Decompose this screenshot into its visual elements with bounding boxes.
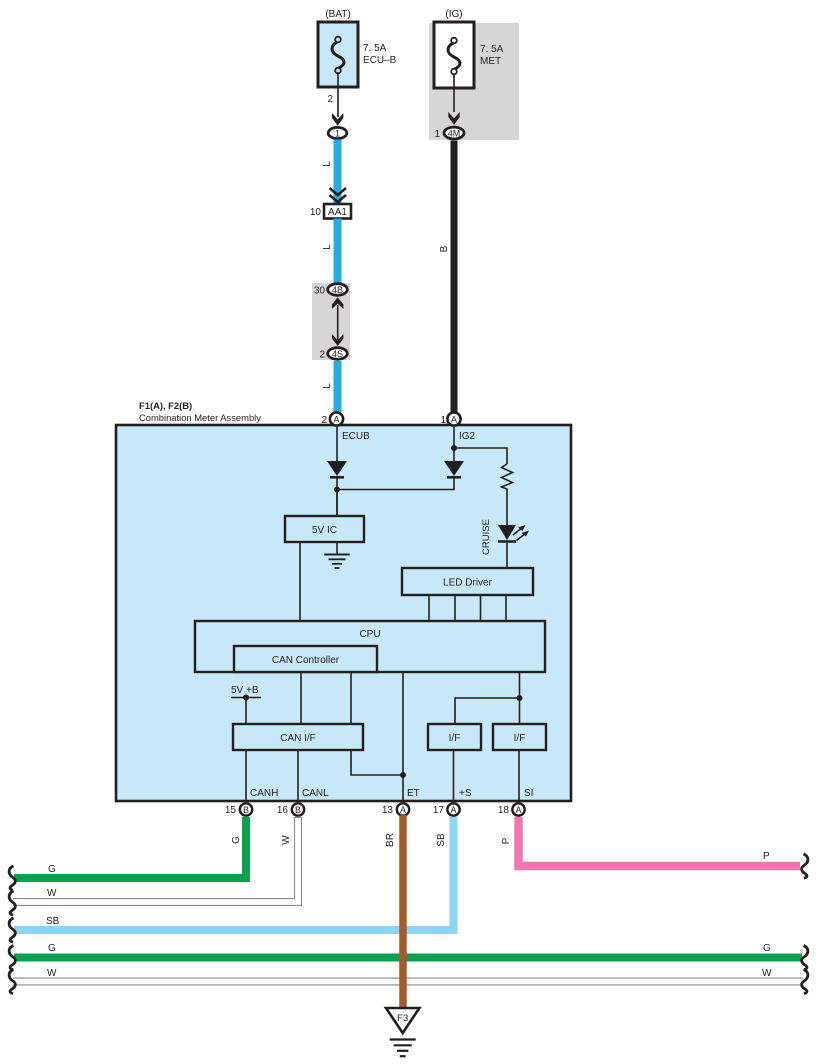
gray background IG circuit [429, 23, 519, 140]
svg-text:AA1: AA1 [328, 207, 347, 218]
wire B black [439, 141, 454, 413]
svg-text:W: W [47, 968, 57, 979]
CAN Controller box [234, 646, 377, 672]
pin 17 connector A [433, 803, 460, 816]
resistor R1 [502, 464, 513, 525]
svg-text:B: B [295, 805, 301, 815]
node 5V +B [231, 685, 261, 724]
svg-text:(BAT): (BAT) [325, 9, 350, 20]
break symbol left G1 [9, 866, 15, 890]
LED Driver box [402, 568, 533, 595]
break symbol right W2 [802, 970, 808, 994]
pin 15 connector B [225, 803, 252, 816]
svg-text:L: L [322, 383, 333, 389]
pin 1 connector A of meter [440, 412, 460, 426]
wire CPU to I/F boxes [455, 672, 523, 724]
wire G horizontal full [14, 943, 802, 958]
break symbol right P [802, 854, 808, 878]
junction wire with arrows [332, 297, 343, 346]
svg-text:CPU: CPU [359, 629, 380, 640]
wires CAN controller to CAN I/F [301, 672, 351, 724]
svg-text:5V IC: 5V IC [312, 525, 337, 536]
svg-text:P: P [501, 837, 512, 844]
svg-text:G: G [231, 836, 242, 844]
svg-text:18: 18 [498, 805, 510, 816]
svg-text:A: A [400, 805, 406, 815]
pin 2 connector A of meter [321, 412, 343, 426]
svg-text:I/F: I/F [514, 733, 526, 744]
node IG2 [451, 427, 507, 464]
break symbol left W1 [9, 891, 15, 915]
svg-text:30: 30 [314, 286, 326, 297]
svg-text:A: A [333, 414, 339, 424]
svg-text:1: 1 [434, 129, 440, 140]
svg-text:2: 2 [327, 94, 333, 105]
CAN I/F box [233, 724, 363, 750]
wire L blue segment 3 [322, 361, 338, 412]
wire G from pin 15 [14, 817, 246, 878]
svg-text:7. 5A: 7. 5A [480, 44, 504, 55]
wire ET from CPU [351, 672, 406, 802]
break symbol left W2 [9, 970, 15, 994]
svg-text:G: G [48, 864, 56, 875]
svg-text:F3: F3 [397, 1013, 408, 1024]
CPU box [195, 621, 545, 672]
svg-text:15: 15 [225, 805, 237, 816]
svg-text:Combination Meter Assembly: Combination Meter Assembly [139, 412, 261, 423]
svg-text:13: 13 [382, 805, 394, 816]
pin 2 of fuse, wire to connector 1 [327, 74, 343, 126]
svg-text:SB: SB [46, 916, 60, 927]
break symbol left SB [9, 918, 15, 942]
svg-text:B: B [243, 805, 249, 815]
I/F box 2 [493, 724, 546, 750]
svg-text:F1(A), F2(B): F1(A), F2(B) [139, 400, 192, 411]
svg-text:I/F: I/F [449, 733, 461, 744]
connector oval 1 [328, 127, 347, 138]
svg-text:5V +B: 5V +B [231, 685, 259, 696]
svg-text:CAN I/F: CAN I/F [280, 733, 316, 744]
fuse MET (IG) [434, 9, 504, 88]
svg-text:W: W [762, 968, 772, 979]
svg-text:17: 17 [433, 805, 445, 816]
svg-text:2: 2 [319, 350, 325, 361]
connector 4M pin 1 [434, 127, 464, 140]
svg-text:A: A [451, 414, 457, 424]
svg-text:LED Driver: LED Driver [443, 578, 493, 589]
diode D1 ECUB [327, 461, 347, 516]
wire L blue segment 2 [322, 219, 338, 285]
output wires to pins [246, 750, 533, 802]
wire L blue segment 1 [322, 140, 338, 204]
node ECUB [337, 427, 370, 461]
svg-text:1: 1 [440, 415, 446, 426]
svg-text:(IG): (IG) [445, 9, 462, 20]
svg-text:A: A [450, 805, 456, 815]
connector 4S pin 2 [319, 348, 347, 361]
svg-text:P: P [763, 851, 770, 862]
svg-text:BR: BR [385, 833, 396, 847]
wire 5V IC to CPU [299, 542, 301, 621]
svg-text:CANH: CANH [250, 788, 278, 799]
wire W horizontal full [13, 968, 803, 982]
svg-text:G: G [48, 943, 56, 954]
break symbol left G2 [9, 946, 15, 970]
svg-text:CANL: CANL [302, 788, 329, 799]
pin 16 connector B [277, 803, 304, 816]
wire SB from pin 17 [14, 817, 454, 930]
wire from fuse MET to connector 4M [448, 75, 459, 125]
gray background 4B-4S junction [312, 283, 350, 360]
svg-text:L: L [322, 244, 333, 250]
svg-text:10: 10 [310, 207, 322, 218]
svg-text:SI: SI [524, 788, 533, 799]
svg-text:ECU–B: ECU–B [363, 55, 397, 66]
connector AA1 pin 10 [310, 204, 351, 219]
svg-text:SB: SB [436, 833, 447, 847]
pin 18 connector A [498, 803, 525, 816]
svg-text:16: 16 [277, 805, 289, 816]
svg-text:1: 1 [335, 129, 340, 139]
fuse ECU-B (BAT) [318, 9, 397, 87]
ground internal under 5V IC [324, 542, 349, 568]
svg-text:G: G [763, 943, 771, 954]
wire BR from pin 13 to ground [385, 815, 403, 1008]
svg-text:2: 2 [321, 415, 327, 426]
svg-text:A: A [515, 805, 521, 815]
svg-text:4S: 4S [332, 349, 343, 359]
svg-text:MET: MET [480, 56, 501, 67]
svg-text:ECUB: ECUB [342, 431, 370, 442]
I/F box 1 [428, 724, 481, 750]
svg-text:IG2: IG2 [459, 431, 476, 442]
svg-text:7. 5A: 7. 5A [363, 43, 387, 54]
svg-text:B: B [439, 245, 450, 252]
svg-text:L: L [322, 161, 333, 167]
diode D2 IG2 [337, 461, 464, 490]
svg-text:CAN Controller: CAN Controller [272, 655, 340, 666]
pin 13 connector A [382, 803, 409, 816]
svg-text:CRUISE: CRUISE [481, 519, 492, 555]
combination meter assembly box [116, 400, 571, 801]
svg-text:W: W [47, 888, 57, 899]
connector 4B pin 30 [314, 284, 347, 297]
svg-text:ET: ET [407, 788, 420, 799]
LED CRUISE [481, 519, 529, 568]
5V IC box [285, 490, 364, 543]
wire W from pin 16 [13, 817, 298, 902]
svg-text:4B: 4B [332, 285, 343, 295]
svg-text:4M: 4M [448, 129, 461, 139]
svg-text:W: W [281, 835, 292, 845]
svg-text:+S: +S [459, 788, 472, 799]
wire P from pin 18 [501, 817, 800, 866]
splice double chevron [330, 188, 347, 202]
LED Driver to CPU pins [429, 595, 506, 621]
break symbol right G2 [802, 946, 808, 970]
ground F3 [386, 1008, 419, 1056]
